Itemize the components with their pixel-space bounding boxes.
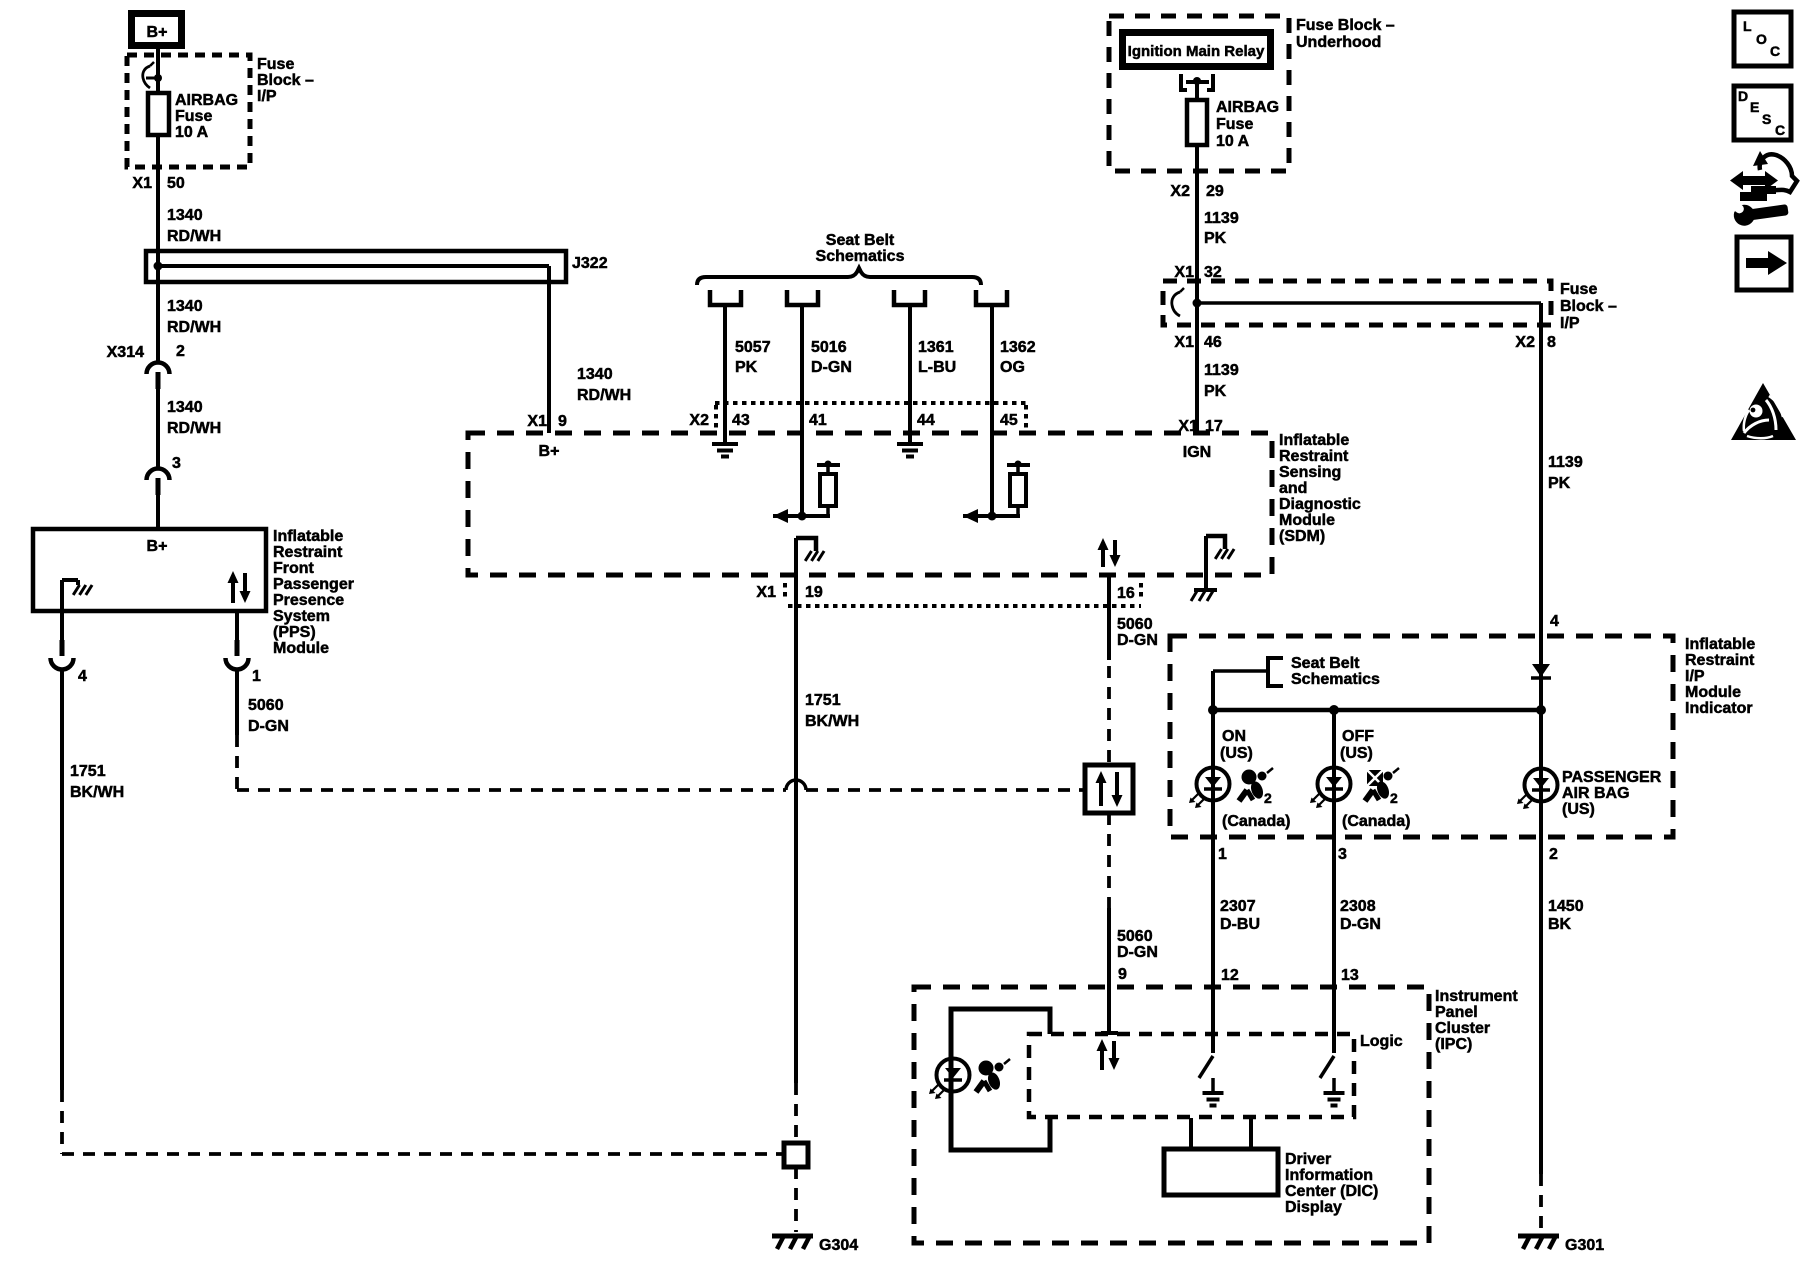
svg-text:5060: 5060 bbox=[248, 697, 284, 714]
svg-text:1361: 1361 bbox=[918, 339, 954, 356]
svg-text:1340: 1340 bbox=[577, 366, 613, 383]
svg-text:5060: 5060 bbox=[1117, 616, 1153, 633]
svg-text:17: 17 bbox=[1205, 418, 1223, 435]
svg-text:Inflatable: Inflatable bbox=[273, 528, 343, 545]
svg-text:(US): (US) bbox=[1340, 745, 1373, 762]
svg-text:and: and bbox=[1279, 480, 1307, 497]
svg-text:S: S bbox=[1762, 111, 1771, 127]
svg-text:AIRBAG: AIRBAG bbox=[175, 92, 238, 109]
svg-text:O: O bbox=[1756, 31, 1767, 47]
svg-text:ON: ON bbox=[1222, 728, 1246, 745]
svg-text:BK/WH: BK/WH bbox=[805, 713, 859, 730]
svg-text:RD/WH: RD/WH bbox=[167, 319, 221, 336]
svg-text:Cluster: Cluster bbox=[1435, 1020, 1490, 1037]
svg-text:3: 3 bbox=[172, 455, 181, 472]
svg-text:29: 29 bbox=[1206, 183, 1224, 200]
svg-text:RD/WH: RD/WH bbox=[167, 420, 221, 437]
svg-text:5057: 5057 bbox=[735, 339, 771, 356]
svg-text:1751: 1751 bbox=[70, 763, 106, 780]
svg-text:1: 1 bbox=[1218, 846, 1227, 863]
svg-text:(PPS): (PPS) bbox=[273, 624, 316, 641]
svg-text:PK: PK bbox=[1204, 383, 1227, 400]
svg-text:D-GN: D-GN bbox=[811, 359, 852, 376]
svg-text:Inflatable: Inflatable bbox=[1279, 432, 1349, 449]
svg-text:RD/WH: RD/WH bbox=[577, 387, 631, 404]
svg-text:Information: Information bbox=[1285, 1167, 1373, 1184]
svg-text:19: 19 bbox=[805, 584, 823, 601]
svg-text:X2: X2 bbox=[689, 412, 709, 429]
svg-text:PK: PK bbox=[735, 359, 758, 376]
svg-text:5016: 5016 bbox=[811, 339, 847, 356]
svg-text:(SDM): (SDM) bbox=[1279, 528, 1325, 545]
svg-text:Passenger: Passenger bbox=[273, 576, 354, 593]
svg-text:44: 44 bbox=[917, 412, 935, 429]
svg-text:D-GN: D-GN bbox=[248, 718, 289, 735]
svg-text:Diagnostic: Diagnostic bbox=[1279, 496, 1361, 513]
svg-text:OFF: OFF bbox=[1342, 728, 1374, 745]
svg-text:C: C bbox=[1770, 43, 1780, 59]
svg-text:16: 16 bbox=[1117, 585, 1135, 602]
svg-text:AIR BAG: AIR BAG bbox=[1562, 785, 1630, 802]
svg-text:Panel: Panel bbox=[1435, 1004, 1478, 1021]
svg-text:Seat Belt: Seat Belt bbox=[826, 232, 895, 249]
svg-text:RD/WH: RD/WH bbox=[167, 228, 221, 245]
svg-text:Fuse: Fuse bbox=[175, 108, 212, 125]
svg-text:PK: PK bbox=[1548, 475, 1571, 492]
svg-text:10 A: 10 A bbox=[1216, 133, 1250, 150]
svg-text:Center (DIC): Center (DIC) bbox=[1285, 1183, 1378, 1200]
svg-text:46: 46 bbox=[1204, 334, 1222, 351]
svg-text:1139: 1139 bbox=[1548, 454, 1583, 471]
svg-text:G301: G301 bbox=[1565, 1237, 1604, 1254]
svg-text:50: 50 bbox=[167, 175, 185, 192]
svg-text:Driver: Driver bbox=[1285, 1151, 1331, 1168]
svg-text:Indicator: Indicator bbox=[1685, 700, 1753, 717]
svg-text:E: E bbox=[1750, 99, 1759, 115]
svg-text:9: 9 bbox=[1118, 966, 1127, 983]
svg-text:Fuse Block –: Fuse Block – bbox=[1296, 17, 1395, 34]
svg-text:10 A: 10 A bbox=[175, 124, 209, 141]
svg-text:D-GN: D-GN bbox=[1117, 632, 1158, 649]
svg-text:8: 8 bbox=[1547, 334, 1556, 351]
svg-text:Ignition Main Relay: Ignition Main Relay bbox=[1128, 43, 1265, 60]
svg-text:Underhood: Underhood bbox=[1296, 34, 1381, 51]
svg-text:Module: Module bbox=[273, 640, 329, 657]
svg-text:B+: B+ bbox=[147, 24, 168, 41]
svg-text:L-BU: L-BU bbox=[918, 359, 956, 376]
svg-text:Seat Belt: Seat Belt bbox=[1291, 655, 1360, 672]
svg-text:X1: X1 bbox=[527, 413, 547, 430]
svg-text:PASSENGER: PASSENGER bbox=[1562, 769, 1662, 786]
svg-text:IGN: IGN bbox=[1183, 444, 1211, 461]
svg-text:X1: X1 bbox=[756, 584, 776, 601]
svg-text:Sensing: Sensing bbox=[1279, 464, 1341, 481]
svg-text:D-BU: D-BU bbox=[1220, 916, 1260, 933]
svg-text:1362: 1362 bbox=[1000, 339, 1036, 356]
svg-text:Module: Module bbox=[1685, 684, 1741, 701]
svg-text:Fuse: Fuse bbox=[1560, 281, 1597, 298]
svg-text:Logic: Logic bbox=[1360, 1033, 1403, 1050]
svg-text:X1: X1 bbox=[1174, 264, 1194, 281]
svg-text:D-GN: D-GN bbox=[1117, 944, 1158, 961]
svg-text:1340: 1340 bbox=[167, 298, 203, 315]
svg-text:1450: 1450 bbox=[1548, 898, 1584, 915]
svg-text:X2: X2 bbox=[1170, 183, 1190, 200]
svg-text:1: 1 bbox=[252, 668, 261, 685]
svg-text:Instrument: Instrument bbox=[1435, 988, 1518, 1005]
svg-text:X1: X1 bbox=[1178, 418, 1198, 435]
svg-text:2307: 2307 bbox=[1220, 898, 1256, 915]
svg-text:(US): (US) bbox=[1562, 801, 1595, 818]
svg-text:32: 32 bbox=[1204, 264, 1222, 281]
svg-text:2: 2 bbox=[176, 343, 185, 360]
svg-text:Schematics: Schematics bbox=[816, 248, 905, 265]
svg-text:(US): (US) bbox=[1220, 745, 1253, 762]
svg-text:2: 2 bbox=[1549, 846, 1558, 863]
svg-text:2: 2 bbox=[1390, 790, 1398, 806]
svg-text:L: L bbox=[1743, 18, 1752, 34]
svg-text:B+: B+ bbox=[147, 538, 168, 555]
svg-text:Display: Display bbox=[1285, 1199, 1342, 1216]
svg-text:Front: Front bbox=[273, 560, 315, 577]
svg-text:G304: G304 bbox=[819, 1237, 858, 1254]
svg-text:Restraint: Restraint bbox=[273, 544, 343, 561]
svg-text:D-GN: D-GN bbox=[1340, 916, 1381, 933]
svg-text:3: 3 bbox=[1338, 846, 1347, 863]
svg-text:BK: BK bbox=[1548, 916, 1572, 933]
svg-text:I/P: I/P bbox=[1560, 315, 1580, 332]
svg-text:1751: 1751 bbox=[805, 692, 841, 709]
svg-text:D: D bbox=[1738, 88, 1748, 104]
svg-text:Fuse: Fuse bbox=[257, 56, 294, 73]
svg-text:(Canada): (Canada) bbox=[1342, 813, 1410, 830]
svg-text:Presence: Presence bbox=[273, 592, 344, 609]
svg-text:C: C bbox=[1775, 122, 1785, 138]
svg-text:(Canada): (Canada) bbox=[1222, 813, 1290, 830]
svg-text:4: 4 bbox=[1550, 613, 1559, 630]
svg-text:Restraint: Restraint bbox=[1279, 448, 1349, 465]
svg-text:12: 12 bbox=[1221, 967, 1239, 984]
svg-text:X1: X1 bbox=[132, 175, 152, 192]
svg-text:43: 43 bbox=[732, 412, 750, 429]
svg-text:I/P: I/P bbox=[1685, 668, 1705, 685]
svg-text:41: 41 bbox=[809, 412, 827, 429]
svg-text:13: 13 bbox=[1341, 967, 1359, 984]
svg-text:PK: PK bbox=[1204, 230, 1227, 247]
svg-text:9: 9 bbox=[558, 413, 567, 430]
svg-text:X2: X2 bbox=[1515, 334, 1535, 351]
svg-text:B+: B+ bbox=[539, 443, 560, 460]
svg-text:Block –: Block – bbox=[1560, 298, 1617, 315]
svg-text:OG: OG bbox=[1000, 359, 1025, 376]
svg-text:2308: 2308 bbox=[1340, 898, 1376, 915]
svg-text:1139: 1139 bbox=[1204, 362, 1239, 379]
svg-text:Fuse: Fuse bbox=[1216, 116, 1253, 133]
svg-text:45: 45 bbox=[1000, 412, 1018, 429]
svg-text:X1: X1 bbox=[1174, 334, 1194, 351]
svg-text:2: 2 bbox=[1264, 790, 1272, 806]
svg-text:Inflatable: Inflatable bbox=[1685, 636, 1755, 653]
svg-text:BK/WH: BK/WH bbox=[70, 784, 124, 801]
svg-text:Schematics: Schematics bbox=[1291, 671, 1380, 688]
svg-text:Restraint: Restraint bbox=[1685, 652, 1755, 669]
svg-text:X314: X314 bbox=[107, 344, 144, 361]
svg-text:Block –: Block – bbox=[257, 72, 314, 89]
svg-text:Module: Module bbox=[1279, 512, 1335, 529]
svg-text:5060: 5060 bbox=[1117, 928, 1153, 945]
svg-text:4: 4 bbox=[78, 668, 87, 685]
svg-text:AIRBAG: AIRBAG bbox=[1216, 99, 1279, 116]
svg-text:1340: 1340 bbox=[167, 207, 203, 224]
svg-text:1340: 1340 bbox=[167, 399, 203, 416]
svg-text:1139: 1139 bbox=[1204, 210, 1239, 227]
svg-text:J322: J322 bbox=[572, 255, 608, 272]
svg-text:I/P: I/P bbox=[257, 88, 277, 105]
svg-text:(IPC): (IPC) bbox=[1435, 1036, 1472, 1053]
svg-text:System: System bbox=[273, 608, 330, 625]
